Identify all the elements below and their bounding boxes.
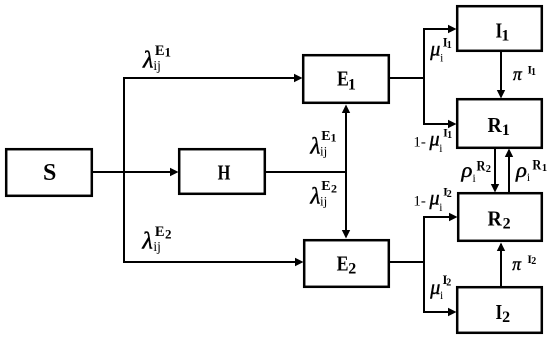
- svg-text:ij: ij: [320, 144, 327, 159]
- svg-text:E: E: [321, 179, 330, 194]
- svg-text:R: R: [488, 114, 503, 137]
- svg-text:π: π: [513, 64, 523, 84]
- wire S to H: [93, 168, 179, 176]
- svg-text:λ: λ: [141, 228, 152, 254]
- svg-text:2: 2: [502, 309, 510, 326]
- svg-text:R: R: [532, 157, 541, 173]
- wire E1 to E2 double arrow: [342, 105, 350, 239]
- svg-text:ρ: ρ: [460, 159, 472, 182]
- wire H to E1-E2 link: [266, 171, 347, 173]
- svg-text:2: 2: [348, 261, 356, 278]
- svg-text:2: 2: [165, 227, 172, 242]
- svg-text:i: i: [440, 52, 443, 64]
- svg-text:S: S: [43, 160, 56, 186]
- box R1: [457, 99, 542, 148]
- svg-text:1: 1: [502, 122, 510, 139]
- svg-text:2: 2: [503, 215, 511, 232]
- wire I1 to R1: [497, 52, 505, 99]
- svg-text:E: E: [155, 224, 165, 240]
- svg-text:μ: μ: [429, 188, 440, 210]
- svg-text:1-: 1-: [413, 134, 426, 150]
- svg-text:1: 1: [447, 130, 452, 141]
- svg-text:1: 1: [331, 131, 337, 145]
- svg-text:1-: 1-: [413, 193, 426, 209]
- svg-text:ρ: ρ: [515, 159, 527, 182]
- wire S branch to E2: [123, 258, 304, 266]
- svg-text:R: R: [477, 158, 486, 174]
- box E2: [304, 240, 389, 287]
- label mu_i^I2: [429, 273, 451, 302]
- svg-text:1: 1: [348, 77, 356, 94]
- wire branch to I2: [423, 308, 457, 316]
- svg-text:ij: ij: [153, 239, 161, 254]
- svg-text:1: 1: [531, 67, 536, 78]
- label lambda_ij^E1 center upper: [309, 129, 336, 159]
- label lambda_ij^E2 lower left: [141, 224, 171, 254]
- wire R1 to R2 down: [491, 149, 499, 193]
- svg-text:H: H: [218, 161, 231, 185]
- label lambda_ij^E2 center lower: [309, 179, 337, 209]
- svg-text:1: 1: [165, 45, 172, 60]
- wire branch to R1: [423, 120, 457, 128]
- svg-text:2: 2: [486, 164, 491, 175]
- box I1: [457, 6, 542, 51]
- box R2: [458, 193, 542, 241]
- label pi^I1: [513, 64, 536, 84]
- label 1-mu_i^I1: [413, 125, 452, 155]
- svg-text:2: 2: [447, 189, 452, 200]
- box H: [179, 149, 265, 194]
- wire E2 to right branch: [390, 217, 424, 312]
- svg-text:i: i: [473, 173, 476, 185]
- wire I2 to R2: [497, 243, 505, 287]
- svg-text:2: 2: [331, 182, 337, 196]
- svg-text:E: E: [155, 43, 165, 59]
- label mu_i^I1: [429, 36, 452, 65]
- svg-text:μ: μ: [429, 129, 440, 151]
- svg-text:1: 1: [501, 28, 509, 45]
- svg-text:E: E: [337, 253, 349, 276]
- svg-text:ij: ij: [320, 194, 327, 209]
- label 1-mu_i^I2: [413, 184, 451, 214]
- svg-text:i: i: [439, 143, 442, 155]
- svg-text:i: i: [527, 172, 530, 184]
- wire S branch to E1: [123, 74, 303, 82]
- wire S branch vertical: [123, 78, 125, 262]
- svg-text:λ: λ: [309, 133, 320, 158]
- wire E1 to right branch: [390, 29, 424, 124]
- svg-text:λ: λ: [309, 184, 320, 209]
- box S: [6, 149, 92, 196]
- svg-text:1: 1: [447, 40, 452, 51]
- svg-text:ij: ij: [153, 58, 161, 73]
- svg-text:i: i: [440, 290, 443, 302]
- label pi^I2: [512, 254, 536, 274]
- box E1: [303, 55, 389, 103]
- svg-text:μ: μ: [429, 277, 440, 299]
- wire branch to R2: [423, 213, 458, 221]
- svg-text:π: π: [512, 254, 522, 274]
- label rho_i^R1: [515, 157, 547, 184]
- label lambda_ij^E1 upper left: [142, 43, 171, 74]
- wire branch to I1: [423, 25, 457, 33]
- svg-text:2: 2: [531, 256, 536, 267]
- svg-text:1: 1: [542, 163, 547, 174]
- svg-text:μ: μ: [429, 39, 440, 61]
- box I2: [457, 287, 542, 333]
- label rho_i^R2: [460, 158, 491, 185]
- wire R2 to R1 up: [505, 149, 513, 193]
- svg-text:R: R: [488, 208, 503, 231]
- svg-text:2: 2: [446, 278, 451, 289]
- svg-text:E: E: [321, 129, 330, 144]
- svg-text:i: i: [439, 202, 442, 214]
- svg-text:λ: λ: [142, 47, 153, 73]
